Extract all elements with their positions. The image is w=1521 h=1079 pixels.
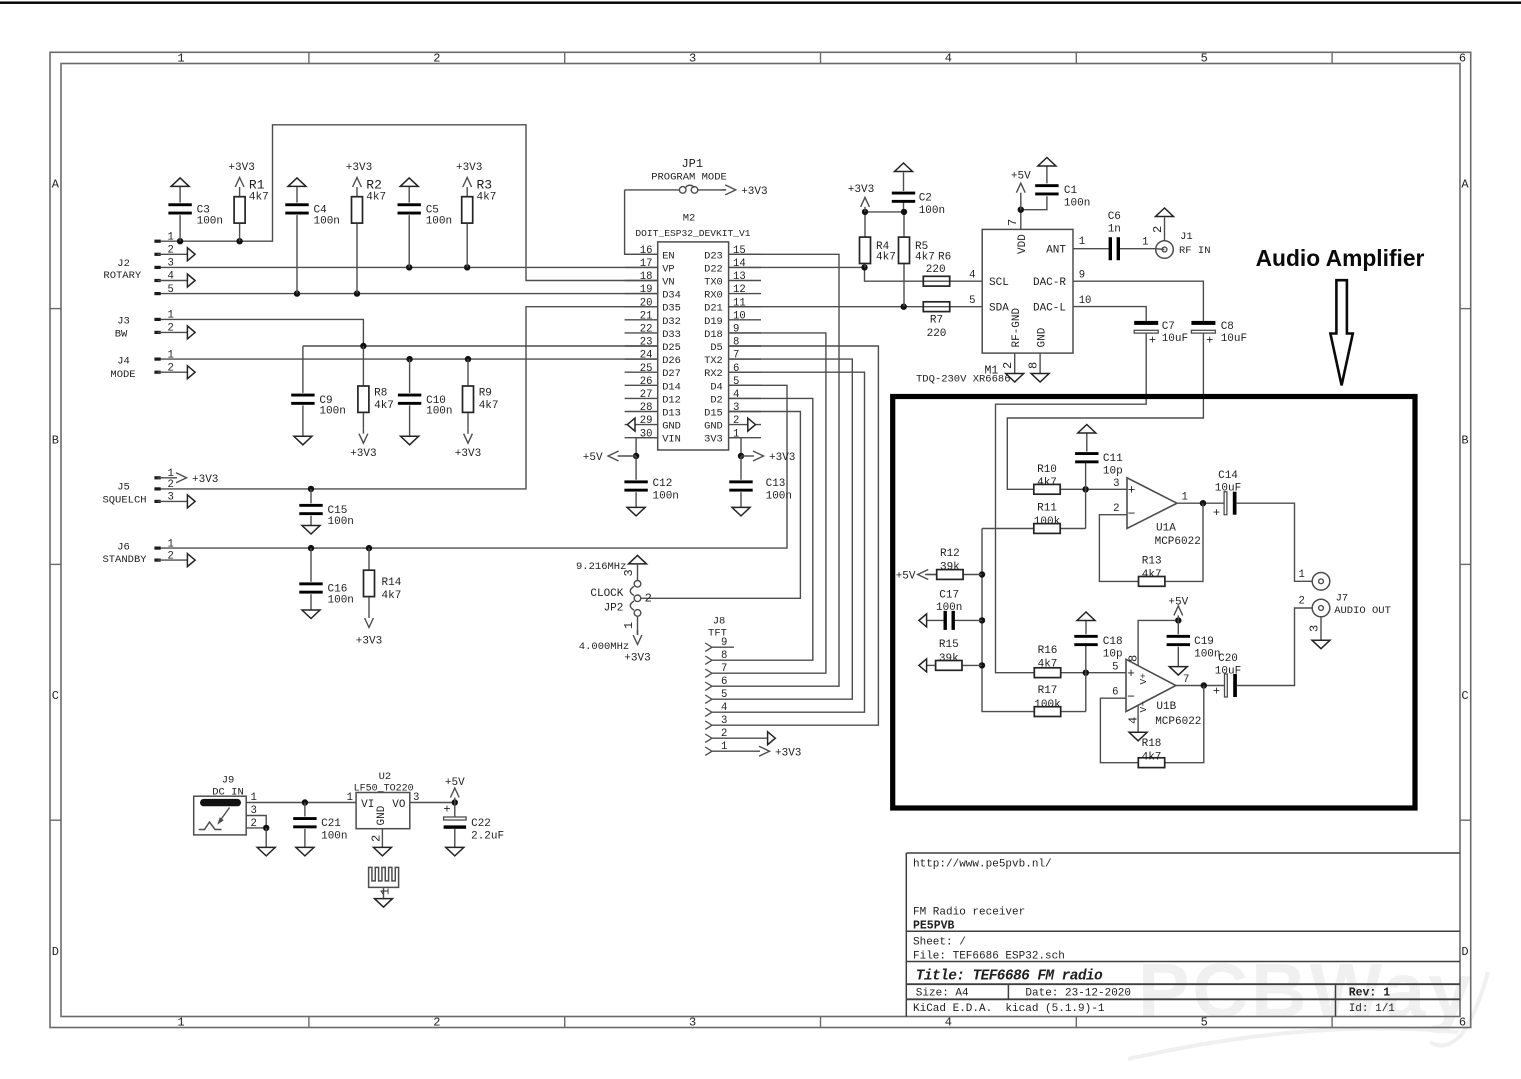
svg-text:D: D (1461, 945, 1468, 959)
svg-text:3: 3 (1307, 625, 1321, 632)
svg-text:1: 1 (379, 888, 393, 895)
svg-text:+: + (1149, 334, 1156, 348)
svg-text:3: 3 (721, 715, 727, 727)
svg-text:STANDBY: STANDBY (102, 554, 147, 566)
svg-text:4: 4 (721, 702, 727, 714)
svg-text:1: 1 (1182, 492, 1188, 504)
svg-text:C: C (52, 689, 59, 703)
svg-text:R18: R18 (1142, 738, 1162, 750)
svg-text:U1B: U1B (1156, 701, 1176, 713)
svg-text:R14: R14 (382, 577, 402, 589)
svg-text:8: 8 (721, 650, 727, 662)
svg-text:VO: VO (392, 799, 406, 811)
svg-text:GND: GND (1036, 327, 1048, 347)
svg-text:2: 2 (370, 835, 384, 842)
svg-text:D4: D4 (710, 381, 722, 393)
svg-text:EN: EN (662, 250, 674, 262)
svg-text:J8: J8 (713, 616, 726, 628)
svg-text:39k: 39k (940, 562, 960, 574)
svg-text:D15: D15 (704, 408, 723, 420)
svg-text:MCP6022: MCP6022 (1155, 716, 1201, 728)
svg-text:R3: R3 (477, 177, 493, 192)
svg-text:100n: 100n (314, 215, 340, 227)
svg-text:100n: 100n (328, 594, 354, 606)
svg-text:3: 3 (689, 1016, 696, 1030)
svg-text:100n: 100n (1194, 649, 1220, 661)
svg-text:B: B (1461, 433, 1468, 447)
svg-text:R12: R12 (940, 548, 960, 560)
svg-text:J7: J7 (1336, 592, 1349, 604)
svg-text:5: 5 (969, 295, 975, 307)
svg-text:C12: C12 (653, 478, 673, 490)
svg-text:SCL: SCL (989, 277, 1009, 289)
svg-text:+: + (1206, 334, 1213, 348)
svg-text:GND: GND (376, 805, 388, 825)
svg-text:100n: 100n (653, 491, 679, 503)
svg-text:24: 24 (640, 350, 653, 362)
svg-text:VP: VP (662, 263, 674, 275)
svg-text:RF IN: RF IN (1179, 245, 1211, 257)
svg-text:File: TEF6686 ESP32.sch: File: TEF6686 ESP32.sch (913, 951, 1065, 963)
svg-text:3: 3 (622, 569, 636, 576)
svg-text:C20: C20 (1218, 653, 1238, 665)
svg-text:4k7: 4k7 (1038, 658, 1058, 670)
svg-text:Audio Amplifier: Audio Amplifier (1256, 245, 1425, 271)
svg-text:+3V3: +3V3 (769, 452, 795, 464)
svg-text:4k7: 4k7 (915, 252, 935, 264)
svg-text:220: 220 (926, 264, 946, 276)
svg-text:100k: 100k (1034, 516, 1061, 528)
svg-text:10p: 10p (1103, 649, 1123, 661)
svg-text:+3V3: +3V3 (192, 474, 218, 486)
svg-text:28: 28 (640, 402, 653, 414)
svg-text:4k7: 4k7 (366, 191, 386, 203)
svg-text:D2: D2 (710, 394, 722, 406)
svg-text:JP2: JP2 (604, 603, 624, 615)
svg-text:6: 6 (1459, 1016, 1466, 1030)
svg-text:2: 2 (733, 415, 739, 427)
svg-text:D5: D5 (710, 342, 722, 354)
svg-text:SDA: SDA (989, 303, 1009, 315)
svg-text:10uF: 10uF (1162, 333, 1188, 345)
svg-text:100n: 100n (328, 516, 354, 528)
svg-text:R2: R2 (366, 177, 382, 192)
svg-text:7: 7 (733, 350, 739, 362)
svg-text:+5V: +5V (583, 452, 603, 464)
svg-text:3: 3 (733, 402, 739, 414)
svg-text:C8: C8 (1221, 321, 1234, 333)
svg-text:4k7: 4k7 (1142, 752, 1162, 764)
svg-text:1: 1 (168, 310, 174, 322)
svg-text:+: + (1213, 685, 1220, 699)
svg-text:D35: D35 (662, 303, 681, 315)
svg-text:FM Radio receiver: FM Radio receiver (913, 907, 1025, 919)
svg-text:R15: R15 (939, 639, 959, 651)
svg-text:C6: C6 (1108, 211, 1121, 223)
svg-text:A: A (1461, 178, 1469, 192)
svg-text:22: 22 (640, 324, 653, 336)
svg-text:http://www.pe5pvb.nl/: http://www.pe5pvb.nl/ (913, 859, 1052, 871)
svg-text:D13: D13 (662, 408, 681, 420)
svg-text:18: 18 (640, 271, 653, 283)
svg-text:4: 4 (945, 1016, 952, 1030)
svg-text:29: 29 (640, 415, 653, 427)
svg-text:RX0: RX0 (704, 290, 723, 302)
svg-text:1n: 1n (1108, 223, 1121, 235)
svg-text:DAC-L: DAC-L (1033, 303, 1066, 315)
svg-text:100n: 100n (197, 215, 223, 227)
svg-text:7: 7 (721, 663, 727, 675)
svg-text:D23: D23 (704, 250, 723, 262)
svg-text:D32: D32 (662, 316, 681, 328)
svg-text:5: 5 (168, 284, 174, 296)
svg-text:D27: D27 (662, 368, 681, 380)
svg-text:U1A: U1A (1156, 523, 1176, 535)
svg-text:J1: J1 (1180, 231, 1193, 243)
svg-text:DC IN: DC IN (212, 786, 244, 798)
svg-text:−: − (1128, 506, 1136, 521)
svg-text:+: + (1127, 666, 1135, 681)
svg-text:GND: GND (704, 421, 723, 433)
svg-text:C21: C21 (321, 818, 341, 830)
svg-text:10uF: 10uF (1215, 482, 1241, 494)
svg-text:4k7: 4k7 (479, 400, 499, 412)
svg-text:9: 9 (733, 324, 739, 336)
svg-text:V−: V− (1138, 701, 1149, 713)
svg-text:20: 20 (640, 297, 653, 309)
svg-text:13: 13 (733, 271, 746, 283)
svg-text:9.216MHz: 9.216MHz (576, 561, 626, 573)
svg-text:1: 1 (1142, 237, 1148, 249)
svg-text:4: 4 (945, 52, 952, 66)
svg-text:R10: R10 (1037, 464, 1057, 476)
svg-text:8: 8 (733, 337, 739, 349)
svg-text:R17: R17 (1038, 685, 1058, 697)
svg-text:R11: R11 (1037, 503, 1057, 515)
svg-text:TX0: TX0 (704, 277, 723, 289)
svg-text:J6: J6 (117, 541, 130, 553)
svg-text:+3V3: +3V3 (775, 747, 801, 759)
svg-text:+3V3: +3V3 (356, 636, 382, 648)
svg-text:D: D (52, 945, 59, 959)
svg-text:D25: D25 (662, 342, 681, 354)
svg-text:R9: R9 (479, 387, 492, 399)
svg-text:5: 5 (721, 689, 727, 701)
svg-text:100n: 100n (319, 406, 345, 418)
svg-text:7: 7 (1183, 674, 1189, 686)
svg-text:C11: C11 (1103, 453, 1123, 465)
svg-text:1: 1 (1079, 236, 1085, 248)
svg-text:+3V3: +3V3 (350, 448, 376, 460)
svg-text:2: 2 (1151, 226, 1165, 233)
svg-text:D14: D14 (662, 381, 681, 393)
svg-text:+5V: +5V (1011, 170, 1031, 182)
svg-text:D34: D34 (662, 290, 681, 302)
svg-text:+5V: +5V (1168, 597, 1188, 609)
svg-text:11: 11 (733, 297, 746, 309)
svg-text:+5V: +5V (445, 777, 465, 789)
svg-text:SQUELCH: SQUELCH (102, 495, 146, 507)
svg-text:26: 26 (640, 376, 653, 388)
svg-text:C2: C2 (919, 193, 932, 205)
svg-text:39k: 39k (939, 653, 959, 665)
svg-text:4k7: 4k7 (876, 252, 896, 264)
svg-text:10uF: 10uF (1215, 666, 1241, 678)
svg-text:6: 6 (1459, 52, 1466, 66)
svg-text:D19: D19 (704, 316, 723, 328)
svg-text:D26: D26 (662, 355, 681, 367)
svg-text:3: 3 (1113, 478, 1119, 490)
svg-text:7: 7 (1006, 219, 1020, 226)
svg-text:16: 16 (640, 245, 653, 257)
svg-text:V+: V+ (1138, 673, 1149, 685)
svg-text:R7: R7 (930, 315, 943, 327)
svg-text:12: 12 (733, 284, 746, 296)
svg-text:J2: J2 (117, 258, 130, 270)
svg-text:AUDIO OUT: AUDIO OUT (1334, 605, 1391, 617)
svg-text:21: 21 (640, 310, 653, 322)
svg-text:100n: 100n (766, 491, 792, 503)
svg-text:C: C (1461, 689, 1468, 703)
svg-text:C14: C14 (1218, 470, 1238, 482)
svg-text:Sheet: /: Sheet: / (913, 937, 966, 949)
svg-text:2: 2 (1001, 362, 1015, 369)
svg-text:1: 1 (733, 428, 739, 440)
svg-text:100k: 100k (1034, 699, 1061, 711)
svg-text:4k7: 4k7 (249, 191, 269, 203)
svg-text:+3V3: +3V3 (346, 162, 372, 174)
svg-text:M2: M2 (683, 212, 696, 224)
svg-text:+3V3: +3V3 (741, 186, 767, 198)
svg-text:C19: C19 (1194, 636, 1214, 648)
svg-text:RF-GND: RF-GND (1011, 307, 1023, 347)
svg-text:6: 6 (1112, 686, 1118, 698)
svg-text:100n: 100n (919, 205, 945, 217)
svg-text:30: 30 (640, 428, 653, 440)
svg-text:VN: VN (662, 277, 674, 289)
svg-text:10uF: 10uF (1221, 333, 1247, 345)
svg-text:VIN: VIN (662, 434, 681, 446)
svg-text:VI: VI (361, 799, 374, 811)
svg-text:6: 6 (733, 363, 739, 375)
svg-text:4: 4 (969, 270, 975, 282)
svg-text:4.000MHz: 4.000MHz (579, 641, 629, 653)
svg-text:R13: R13 (1142, 556, 1162, 568)
svg-text:4k7: 4k7 (1142, 569, 1162, 581)
svg-text:D33: D33 (662, 329, 681, 341)
svg-text:Date: 23-12-2020: Date: 23-12-2020 (1025, 987, 1131, 999)
svg-text:D18: D18 (704, 329, 723, 341)
svg-text:2: 2 (645, 592, 652, 606)
svg-text:TDQ-230V XR6686: TDQ-230V XR6686 (916, 374, 1011, 386)
svg-text:1: 1 (168, 231, 174, 243)
svg-text:100n: 100n (1064, 198, 1090, 210)
svg-text:A: A (52, 178, 60, 192)
svg-text:100n: 100n (426, 406, 452, 418)
svg-text:Rev: 1: Rev: 1 (1349, 986, 1391, 999)
svg-text:R16: R16 (1038, 645, 1058, 657)
svg-text:DOIT_ESP32_DEVKIT_V1: DOIT_ESP32_DEVKIT_V1 (635, 228, 750, 239)
svg-text:+5V: +5V (896, 571, 916, 583)
svg-text:3V3: 3V3 (704, 434, 723, 446)
svg-text:LF50_TO220: LF50_TO220 (354, 783, 414, 794)
svg-text:4k7: 4k7 (477, 191, 497, 203)
svg-text:R8: R8 (374, 387, 387, 399)
svg-text:4k7: 4k7 (1037, 477, 1057, 489)
svg-text:+3V3: +3V3 (456, 162, 482, 174)
svg-text:PE5PVB: PE5PVB (913, 920, 955, 933)
svg-text:J5: J5 (117, 481, 130, 493)
svg-text:+3V3: +3V3 (228, 162, 254, 174)
svg-text:C22: C22 (471, 818, 491, 830)
svg-text:2: 2 (1113, 503, 1119, 515)
svg-text:4k7: 4k7 (374, 400, 394, 412)
svg-text:2: 2 (433, 52, 440, 66)
svg-text:R6: R6 (938, 252, 951, 264)
svg-text:B: B (52, 433, 59, 447)
svg-text:BW: BW (115, 329, 128, 341)
svg-text:Id: 1/1: Id: 1/1 (1349, 1003, 1396, 1015)
svg-text:J9: J9 (222, 775, 235, 787)
svg-text:+: + (1128, 482, 1136, 497)
svg-text:1: 1 (1299, 569, 1305, 581)
svg-text:J4: J4 (117, 356, 130, 368)
svg-text:C17: C17 (939, 590, 959, 602)
svg-text:4k7: 4k7 (382, 590, 402, 602)
svg-text:8: 8 (1026, 362, 1040, 369)
svg-text:1: 1 (177, 1016, 184, 1030)
svg-text:10: 10 (1079, 295, 1092, 307)
svg-text:1: 1 (168, 349, 174, 361)
svg-text:JP1: JP1 (681, 157, 703, 171)
svg-text:19: 19 (640, 284, 653, 296)
svg-text:Title: TEF6686 FM radio: Title: TEF6686 FM radio (916, 969, 1103, 985)
svg-text:5: 5 (1201, 52, 1208, 66)
svg-text:MCP6022: MCP6022 (1155, 536, 1201, 548)
svg-text:5: 5 (733, 376, 739, 388)
svg-text:23: 23 (640, 337, 653, 349)
svg-text:R1: R1 (249, 177, 265, 192)
svg-text:DAC-R: DAC-R (1033, 277, 1066, 289)
svg-text:1: 1 (622, 622, 636, 629)
svg-text:ROTARY: ROTARY (103, 270, 142, 282)
svg-text:3: 3 (689, 52, 696, 66)
svg-text:100n: 100n (321, 831, 347, 843)
svg-text:PROGRAM MODE: PROGRAM MODE (651, 171, 727, 183)
svg-text:10p: 10p (1103, 466, 1123, 478)
svg-text:6: 6 (721, 676, 727, 688)
svg-text:Size: A4: Size: A4 (916, 987, 969, 999)
svg-text:C7: C7 (1162, 321, 1175, 333)
svg-text:25: 25 (640, 363, 653, 375)
svg-text:D12: D12 (662, 394, 681, 406)
svg-text:27: 27 (640, 389, 653, 401)
svg-text:17: 17 (640, 258, 653, 270)
svg-text:10: 10 (733, 310, 746, 322)
svg-text:2: 2 (168, 479, 174, 491)
svg-text:D22: D22 (704, 263, 723, 275)
svg-text:2: 2 (1299, 596, 1305, 608)
svg-text:5: 5 (1201, 1016, 1208, 1030)
svg-text:+3V3: +3V3 (848, 184, 874, 196)
svg-text:MODE: MODE (110, 369, 135, 381)
svg-text:CLOCK: CLOCK (590, 588, 623, 600)
svg-text:15: 15 (733, 245, 746, 257)
svg-text:RX2: RX2 (704, 368, 723, 380)
svg-text:TX2: TX2 (704, 355, 723, 367)
svg-text:C1: C1 (1064, 185, 1078, 197)
svg-text:ANT: ANT (1046, 245, 1066, 257)
svg-text:C18: C18 (1103, 636, 1123, 648)
svg-text:D21: D21 (704, 303, 723, 315)
svg-text:220: 220 (927, 328, 947, 340)
svg-text:+3V3: +3V3 (624, 653, 650, 665)
svg-text:+3V3: +3V3 (455, 448, 481, 460)
svg-text:4: 4 (733, 389, 739, 401)
svg-text:9: 9 (1079, 270, 1085, 282)
svg-text:+: + (443, 803, 450, 817)
svg-text:J3: J3 (117, 315, 130, 327)
svg-text:14: 14 (733, 258, 746, 270)
svg-text:KiCad E.D.A. kicad (5.1.9)-1: KiCad E.D.A. kicad (5.1.9)-1 (913, 1003, 1105, 1015)
svg-text:100n: 100n (936, 602, 962, 614)
svg-text:1: 1 (168, 538, 174, 550)
svg-text:+: + (1213, 506, 1220, 520)
svg-text:U2: U2 (379, 771, 392, 783)
svg-text:1: 1 (347, 792, 353, 804)
svg-text:VDD: VDD (1017, 234, 1029, 254)
svg-text:1: 1 (177, 52, 184, 66)
svg-text:100n: 100n (426, 215, 452, 227)
svg-text:5: 5 (1112, 661, 1118, 673)
svg-text:2.2uF: 2.2uF (471, 831, 504, 843)
svg-text:3: 3 (168, 258, 174, 270)
svg-text:C13: C13 (766, 478, 786, 490)
svg-text:−: − (1127, 690, 1135, 705)
svg-text:GND: GND (662, 421, 681, 433)
svg-text:2: 2 (433, 1016, 440, 1030)
